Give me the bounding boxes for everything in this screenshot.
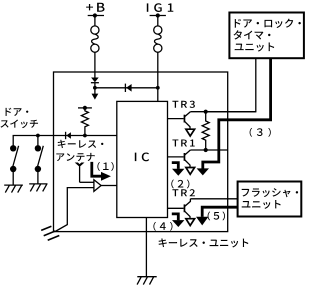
node switch2 junction bbox=[36, 134, 40, 138]
label flasher unit line1 bbox=[242, 189, 250, 197]
node TR3 collector / resistor top bbox=[204, 110, 208, 114]
ground (door switch SW1) bbox=[4, 185, 23, 193]
fuse F2 (IG1) bbox=[154, 26, 162, 52]
transistor Q TR3 bbox=[168, 112, 195, 136]
ground (door switch SW2) bbox=[29, 184, 47, 192]
door switch SW1 bbox=[10, 145, 19, 185]
thick signal path (5) bbox=[196, 207, 238, 225]
resistor R1 (keyless antenna) bbox=[81, 108, 88, 136]
thick signal arrow (2) bbox=[172, 163, 185, 176]
label timer unit line2 bbox=[233, 30, 241, 39]
door switch SW2 bbox=[35, 145, 44, 184]
wire branch +B node to IG1 node bbox=[95, 87, 158, 89]
diode D2 (branch, cathode left) bbox=[125, 84, 131, 92]
ground (keyless unit main) bbox=[137, 277, 157, 285]
diode D3 (door switch line, cathode left) bbox=[66, 132, 71, 139]
thick signal arrow (1) bbox=[92, 162, 111, 181]
node IG1 terminal junction bbox=[156, 13, 160, 17]
wire IC ground pin bbox=[145, 218, 147, 277]
flasher unit box bbox=[238, 182, 302, 217]
wire door switch bus bbox=[13, 136, 117, 149]
label keyless antenna line2 bbox=[56, 153, 64, 161]
node +B/branch junction bbox=[93, 86, 97, 90]
label TR1 bbox=[172, 139, 178, 146]
power label IG1 bbox=[147, 3, 149, 11]
label flasher unit line2 bbox=[242, 201, 251, 208]
transistor Q TR2 bbox=[168, 199, 195, 226]
label TR3 bbox=[172, 101, 178, 108]
ground (keyless unit case) bbox=[41, 226, 59, 240]
label door switch line2 bbox=[1, 120, 9, 127]
node antenna resistor bottom junction bbox=[83, 134, 87, 138]
antenna resistor terminal bar bbox=[78, 107, 92, 109]
power label +B bbox=[86, 4, 93, 10]
label (1) bbox=[97, 162, 100, 171]
wire +B fuse to diode bbox=[94, 52, 96, 77]
resistor R2 bbox=[202, 112, 209, 150]
keyless unit enclosure box bbox=[54, 72, 228, 232]
wire timer thin output to TR3 collector bbox=[208, 58, 256, 111]
wire IG1 down to IC bbox=[157, 52, 159, 101]
op-amp/controller IC U1 bbox=[117, 101, 168, 217]
wire TR1 collector to box edge bbox=[190, 149, 227, 151]
label timer unit line3 bbox=[235, 44, 244, 51]
wire ground to IC (hollow arrow bottom side) bbox=[55, 188, 94, 232]
wire antenna to IC (hollow arrow top side) bbox=[80, 181, 94, 183]
wire arrowhead to IC pin bbox=[101, 185, 117, 187]
wire +B terminal bar bbox=[88, 16, 104, 26]
wire TR3 collector to timer line bbox=[190, 111, 255, 113]
label (2) bbox=[171, 180, 174, 189]
thick signal path (3) bbox=[197, 58, 271, 175]
label (4) bbox=[153, 222, 156, 231]
diode D1 (+B line, cathode down) bbox=[91, 78, 99, 83]
label keyless antenna line1 bbox=[58, 140, 66, 148]
open arrowhead (1) input to IC bbox=[94, 180, 101, 192]
node IG1/branch junction bbox=[156, 86, 160, 90]
node antenna resistor top bbox=[83, 106, 87, 110]
label IC bbox=[135, 153, 137, 161]
wire IG1 terminal bar bbox=[150, 16, 166, 26]
label timer unit line1 bbox=[235, 19, 241, 28]
label TR2 bbox=[172, 189, 178, 196]
label keyless unit bbox=[159, 238, 167, 247]
wire switch2 drop bbox=[37, 136, 39, 149]
label door switch line1 bbox=[6, 108, 12, 116]
fuse F1 (+B) bbox=[91, 26, 99, 52]
thick signal arrow (4) bbox=[172, 214, 185, 227]
transistor Q TR1 bbox=[168, 150, 195, 174]
node TR1 collector / resistor bottom bbox=[204, 148, 208, 152]
label (5) bbox=[208, 212, 211, 221]
label (3) bbox=[250, 128, 253, 137]
arrow feed down from +B node bbox=[92, 88, 99, 100]
node +B terminal junction bbox=[93, 13, 97, 17]
wire TR2 collector to flasher unit bbox=[190, 198, 237, 200]
door lock timer unit box bbox=[229, 13, 304, 59]
wire diode to node bbox=[94, 83, 96, 88]
antenna symbol bbox=[75, 163, 85, 183]
